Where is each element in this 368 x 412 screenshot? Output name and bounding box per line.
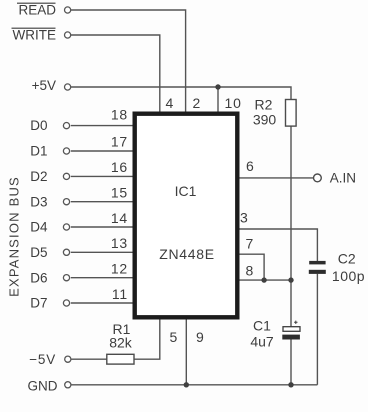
svg-text:D0: D0	[30, 118, 47, 133]
wire D3 to pin 15	[71, 201, 133, 203]
svg-text:7: 7	[246, 235, 254, 251]
wire C2 to GND rail	[316, 274, 318, 385]
wire D6 to pin 12	[71, 277, 133, 279]
svg-text:−5V: −5V	[29, 352, 56, 367]
junction pin 7 / pin 8	[261, 277, 266, 282]
wire pin 10 stub	[217, 87, 219, 112]
wire C1 to GND rail	[290, 339, 292, 384]
svg-text:D7: D7	[30, 296, 47, 311]
wire D1 to pin 17	[71, 150, 133, 152]
terminal D2	[30, 169, 69, 184]
svg-text:D4: D4	[30, 220, 48, 235]
junction pin 9 / GND	[184, 382, 189, 387]
resistor R1	[107, 354, 134, 364]
terminal D5	[30, 245, 69, 260]
svg-text:11: 11	[112, 286, 128, 302]
wire pin 8 to node B	[240, 279, 292, 281]
svg-text:390: 390	[253, 112, 277, 128]
svg-text:EXPANSION BUS: EXPANSION BUS	[7, 176, 22, 297]
wire D4 to pin 14	[71, 226, 133, 228]
wire pin 5 to R1	[134, 320, 160, 360]
wire D2 to pin 16	[71, 175, 133, 177]
svg-text:D2: D2	[30, 169, 47, 184]
svg-text:100p: 100p	[332, 268, 365, 284]
wire pin 3 to C2	[240, 229, 318, 261]
polarity + mark	[294, 321, 297, 324]
op-amp IC1 body (ADC ZN448E)	[135, 114, 238, 318]
svg-text:D5: D5	[30, 245, 47, 260]
terminal D6	[30, 270, 69, 285]
junction C1 / GND	[288, 382, 293, 387]
svg-text:15: 15	[111, 185, 128, 201]
wire GND rail	[71, 384, 318, 386]
junction +5V / pin 10	[215, 84, 220, 89]
capacitor C1 bottom plate	[282, 335, 300, 340]
svg-text:8: 8	[246, 263, 254, 279]
terminal D3	[30, 194, 69, 209]
wire -5V to R1	[71, 358, 107, 360]
resistor R2	[286, 100, 297, 127]
svg-text:C2: C2	[338, 250, 356, 266]
svg-text:C1: C1	[253, 317, 271, 333]
capacitor C2 bottom plate	[309, 270, 326, 274]
svg-text:3: 3	[240, 209, 248, 225]
terminal WRITE	[12, 28, 71, 43]
wire node B to C1	[290, 280, 292, 327]
svg-text:18: 18	[111, 107, 128, 123]
svg-text:READ: READ	[18, 3, 56, 18]
wire WRITE to pin 4	[71, 35, 160, 112]
wire D5 to pin 13	[71, 251, 133, 253]
terminal +5V	[32, 78, 71, 93]
svg-text:13: 13	[111, 235, 128, 251]
svg-text:17: 17	[111, 134, 128, 150]
terminal D1	[30, 144, 69, 159]
svg-text:6: 6	[246, 158, 254, 174]
svg-text:5: 5	[170, 329, 178, 345]
terminal -5V	[29, 352, 71, 367]
svg-text:D3: D3	[30, 194, 47, 209]
wire D7 to pin 11	[71, 302, 133, 304]
svg-text:4u7: 4u7	[250, 333, 274, 349]
wire pin 7	[240, 254, 265, 280]
svg-text:D6: D6	[30, 270, 47, 285]
svg-text:D1: D1	[30, 144, 47, 159]
svg-text:GND: GND	[28, 378, 58, 393]
svg-text:A.IN: A.IN	[330, 171, 356, 186]
wire R2 bottom to node B	[290, 126, 292, 280]
junction node B	[288, 277, 293, 282]
svg-text:82k: 82k	[109, 334, 133, 350]
terminal D0	[30, 118, 69, 133]
svg-text:ZN448E: ZN448E	[159, 246, 215, 262]
svg-text:R2: R2	[255, 96, 273, 112]
svg-text:WRITE: WRITE	[13, 28, 57, 43]
svg-text:12: 12	[111, 260, 128, 276]
wire D0 to pin 18	[71, 125, 133, 127]
wire pin 6 to A.IN	[240, 177, 314, 179]
svg-text:4: 4	[166, 95, 174, 111]
wire +5V rail to R2	[71, 87, 291, 100]
terminal READ	[17, 3, 71, 18]
terminal D4	[30, 220, 69, 235]
terminal D7	[30, 296, 69, 311]
svg-text:IC1: IC1	[175, 183, 197, 199]
svg-text:16: 16	[111, 159, 128, 175]
svg-text:14: 14	[111, 210, 128, 226]
wire READ to pin 2	[71, 10, 186, 112]
wire pin 9 to GND rail	[185, 320, 187, 385]
capacitor C2 top plate	[309, 261, 325, 265]
svg-text:+5V: +5V	[32, 78, 56, 93]
capacitor C1 top plate (electrolytic +)	[283, 327, 300, 332]
terminal A.IN	[314, 171, 357, 186]
svg-text:9: 9	[196, 329, 204, 345]
terminal GND	[28, 378, 71, 393]
svg-text:10: 10	[225, 95, 242, 111]
svg-text:2: 2	[193, 95, 201, 111]
